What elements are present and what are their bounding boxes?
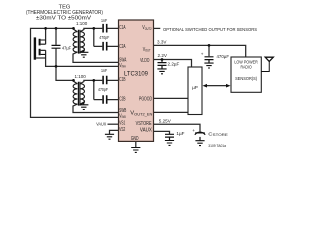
svg-text:1:100: 1:100 [76, 21, 88, 26]
svg-text:5.25V: 5.25V [159, 118, 172, 123]
svg-text:VOUT2: VOUT2 [142, 25, 151, 31]
svg-text:VSTORE: VSTORE [136, 121, 153, 127]
svg-text:VINB: VINB [119, 114, 126, 120]
svg-text:µP: µP [192, 85, 198, 90]
svg-text:RADIO: RADIO [241, 64, 253, 69]
svg-text:VOUT: VOUT [143, 47, 151, 53]
svg-text:C1B: C1B [119, 77, 126, 83]
svg-text:VS2: VS2 [119, 127, 125, 133]
svg-text:3.3V: 3.3V [157, 39, 167, 44]
svg-text:OPTIONAL SWITCHED OUTPUT FOR S: OPTIONAL SWITCHED OUTPUT FOR SENSORS [163, 27, 257, 32]
svg-text:+: + [201, 52, 204, 57]
svg-text:C1A: C1A [119, 25, 126, 31]
svg-text:47µF: 47µF [62, 46, 71, 51]
svg-text:470pF: 470pF [98, 87, 108, 92]
svg-text:C2A: C2A [119, 44, 126, 50]
svg-text:C2B: C2B [119, 96, 126, 102]
svg-text:1nF: 1nF [101, 68, 107, 73]
svg-text:1:100: 1:100 [75, 74, 87, 79]
svg-text:1µF: 1µF [176, 131, 184, 136]
svg-text:VS1: VS1 [119, 121, 125, 127]
svg-text:2.2V: 2.2V [158, 53, 168, 58]
svg-text:VLDO: VLDO [140, 58, 149, 64]
svg-text:470pF: 470pF [99, 35, 109, 40]
svg-text:VAUX: VAUX [140, 128, 153, 134]
svg-text:CSTORE: CSTORE [208, 131, 228, 137]
svg-text:1nF: 1nF [101, 18, 107, 23]
svg-text:2.2µF: 2.2µF [168, 61, 180, 66]
svg-text:470µF: 470µF [217, 54, 230, 59]
svg-text:VOUT2_EN: VOUT2_EN [130, 111, 153, 117]
svg-text:SENSOR(S): SENSOR(S) [235, 76, 257, 81]
svg-text:PGOOD: PGOOD [139, 96, 152, 102]
svg-text:3109 TA01a: 3109 TA01a [208, 144, 226, 148]
svg-text:+: + [192, 128, 195, 133]
svg-text:LTC3109: LTC3109 [124, 72, 149, 78]
svg-text:GND: GND [131, 136, 139, 142]
svg-text:VAUX: VAUX [96, 121, 106, 126]
svg-text:VINA: VINA [119, 63, 126, 69]
